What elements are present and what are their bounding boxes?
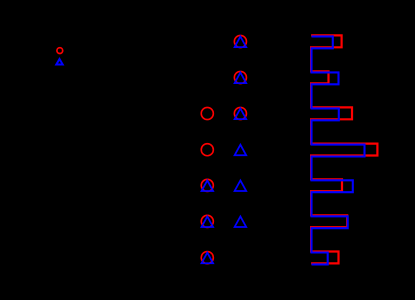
red circle marker row3 col2	[234, 107, 246, 119]
red circle marker row4 col1	[201, 144, 213, 156]
blue triangle marker row5 col2	[235, 180, 247, 191]
blue triangle marker row4 col2	[235, 145, 247, 156]
blue triangle marker row7 col1	[202, 253, 214, 264]
blue triangle marker row1 col2	[235, 37, 247, 48]
blue triangle marker row6 col1	[202, 216, 214, 227]
legend marker: blue triangle	[56, 59, 62, 65]
blue triangle marker row2 col2	[235, 73, 247, 84]
blue triangle marker row5 col1	[202, 180, 214, 191]
blue step line (blue series histogram steps)	[312, 36, 365, 264]
red circle marker row3 col1	[201, 107, 213, 119]
red circle marker row6 col1	[201, 215, 213, 227]
red circle marker row5 col1	[201, 179, 213, 191]
red step line (red series histogram steps)	[311, 35, 377, 263]
blue triangle marker row3 col2	[235, 109, 247, 120]
red circle marker row1 col2	[234, 35, 246, 47]
red circle marker row2 col2	[234, 71, 246, 83]
red circle marker row7 col1	[201, 252, 213, 264]
blue triangle marker row6 col2	[235, 216, 247, 227]
legend marker: red circle	[57, 48, 63, 54]
